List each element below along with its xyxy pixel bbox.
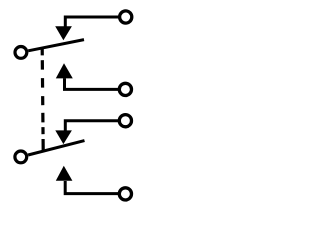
pole terminal P1 (left upper) bbox=[15, 47, 27, 59]
terminal T1 (top right) bbox=[120, 11, 132, 23]
terminal T2 (right, second) bbox=[119, 83, 131, 95]
arrowhead: throw 4 contact (up) bbox=[56, 166, 73, 181]
switch arm: pole 2 lever bbox=[28, 141, 84, 155]
switch arm: pole 1 lever bbox=[28, 40, 84, 51]
wire: throw 2 horizontal + riser bbox=[65, 78, 119, 89]
arrowhead: throw 2 contact (up) bbox=[56, 63, 73, 78]
arrowhead: throw 1 contact (down) bbox=[55, 26, 72, 40]
arrowhead: throw 3 contact (down) bbox=[55, 130, 72, 144]
wire: throw 3 horizontal + drop bbox=[65, 121, 118, 131]
pole terminal P2 (left lower) bbox=[15, 151, 27, 163]
terminal T3 (right, third) bbox=[119, 115, 131, 127]
wire: throw 4 horizontal + riser bbox=[65, 181, 118, 194]
terminal T4 (bottom right) bbox=[119, 188, 131, 200]
mechanical linkage: dashed tie bar bbox=[42, 49, 43, 151]
wire: throw 1 horizontal + drop bbox=[65, 17, 118, 27]
